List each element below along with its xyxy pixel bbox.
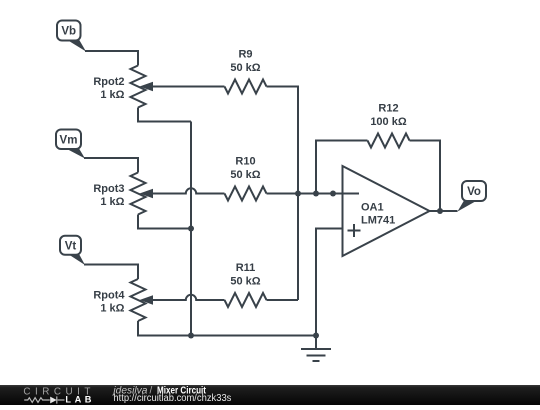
svg-text:LAB: LAB: [65, 394, 91, 404]
svg-text:R12: R12: [378, 103, 398, 115]
svg-text:100 kΩ: 100 kΩ: [370, 116, 407, 128]
svg-text:Vo: Vo: [467, 186, 481, 198]
svg-text:R10: R10: [235, 156, 255, 168]
svg-text:OA1: OA1: [361, 202, 384, 214]
svg-text:Vb: Vb: [61, 26, 76, 38]
svg-text:R9: R9: [238, 49, 252, 61]
svg-text:Rpot4: Rpot4: [93, 290, 125, 302]
svg-text:http://circuitlab.com/chzk33s: http://circuitlab.com/chzk33s: [113, 393, 231, 404]
svg-text:Vt: Vt: [65, 240, 77, 252]
svg-text:Vm: Vm: [60, 135, 78, 147]
svg-text:1 kΩ: 1 kΩ: [100, 89, 124, 101]
svg-text:1 kΩ: 1 kΩ: [100, 196, 124, 208]
svg-text:Rpot3: Rpot3: [93, 183, 124, 195]
svg-text:R11: R11: [236, 262, 256, 274]
svg-text:1 kΩ: 1 kΩ: [100, 303, 124, 315]
svg-text:50 kΩ: 50 kΩ: [230, 62, 260, 74]
svg-text:50 kΩ: 50 kΩ: [230, 169, 260, 181]
svg-text:50 kΩ: 50 kΩ: [230, 276, 260, 288]
svg-text:LM741: LM741: [361, 215, 395, 227]
svg-text:Rpot2: Rpot2: [93, 76, 124, 88]
